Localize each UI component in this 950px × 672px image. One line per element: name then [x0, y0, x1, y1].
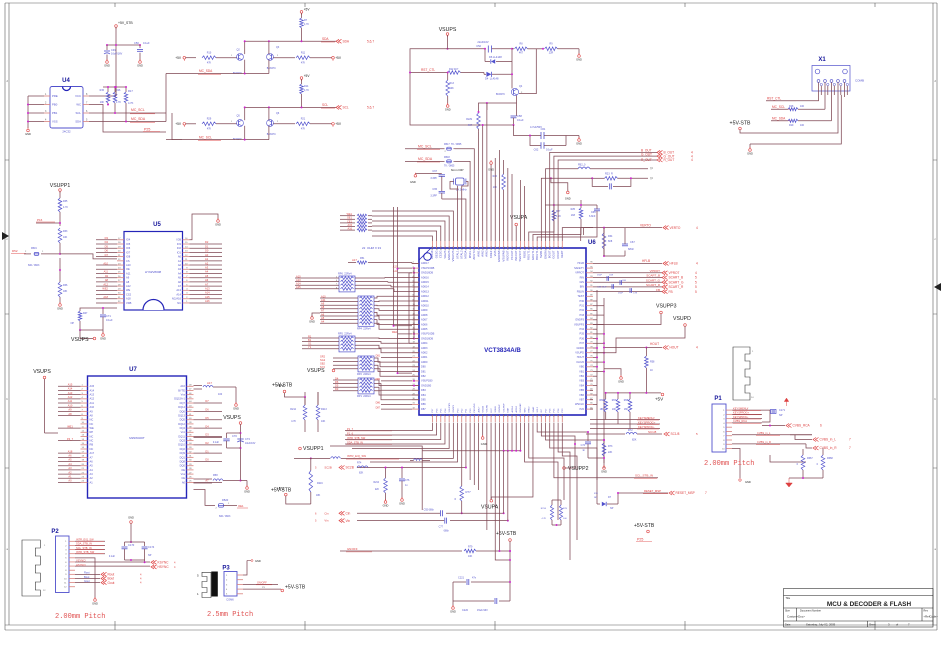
pin U7-34 — [187, 444, 194, 446]
svg-text:GND: GND — [92, 602, 98, 606]
svg-text:D3: D3 — [105, 236, 109, 240]
svg-text:15nF: 15nF — [618, 293, 624, 295]
svg-text:AD610: AD610 — [421, 304, 429, 308]
resistor R17 4.7K — [125, 87, 127, 92]
svg-text:R29: R29 — [207, 118, 212, 121]
svg-text:GND: GND — [128, 516, 134, 520]
svg-text:AD66: AD66 — [421, 322, 428, 326]
svg-text:A3: A3 — [90, 472, 94, 476]
svg-text:AD615: AD615 — [421, 280, 429, 284]
capacitor C62 0.1uF — [530, 136, 541, 146]
svg-text:D87: D87 — [421, 407, 426, 411]
svg-text:SDA: SDA — [75, 120, 81, 124]
wire collectors to row — [244, 107, 246, 120]
svg-text:SDA: SDA — [343, 40, 350, 44]
svg-text:D80: D80 — [421, 365, 426, 369]
wire vsupa column — [515, 226, 517, 241]
svg-text:D84: D84 — [421, 393, 426, 397]
svg-text:IO2: IO2 — [177, 246, 182, 250]
net WE1 wire — [58, 427, 81, 429]
svg-text:A17: A17 — [207, 381, 212, 385]
svg-text:A4: A4 — [321, 320, 325, 324]
svg-text:10uF/16V: 10uF/16V — [245, 442, 256, 445]
svg-text:4: 4 — [696, 226, 698, 230]
svg-text:GND: GND — [410, 180, 416, 184]
svg-text:DQ5: DQ5 — [180, 418, 186, 422]
svg-text:A2: A2 — [68, 470, 72, 474]
pin U7-48 — [187, 385, 194, 387]
pin P2-8 — [69, 569, 75, 571]
pin U7-19 — [81, 461, 88, 463]
svg-text:R12 4K7: R12 4K7 — [449, 68, 459, 71]
svg-text:R74: R74 — [357, 462, 362, 465]
inductor FB2_0 row — [578, 167, 590, 169]
border arrow marker — [2, 232, 9, 240]
svg-text:GND: GND — [576, 142, 582, 146]
svg-text:AD67: AD67 — [421, 318, 428, 322]
svg-text:C170: C170 — [128, 543, 135, 547]
svg-text:GIN: GIN — [579, 280, 584, 284]
wire right bus verticals — [603, 228, 605, 256]
svg-text:FB18: FB18 — [444, 156, 450, 159]
svg-text:C52: C52 — [476, 44, 481, 48]
capacitor C76 — [401, 468, 403, 479]
off-page connector SDA — [336, 39, 342, 43]
svg-text:A8: A8 — [321, 305, 325, 309]
wire — [115, 27, 117, 45]
pin P1-10 — [726, 448, 732, 450]
pin P1-6 — [726, 430, 732, 432]
net A12 wire — [58, 398, 81, 400]
svg-text:16uF/16V: 16uF/16V — [111, 52, 123, 56]
svg-text:GND16DB: GND16DB — [421, 271, 433, 275]
svg-text:+5V-STB: +5V-STB — [272, 383, 293, 389]
net Rout — [75, 573, 100, 575]
svg-text:NP: NP — [148, 554, 152, 557]
ferrite bead FB21 100 — [203, 385, 213, 387]
svg-text:MC_SDA: MC_SDA — [199, 69, 213, 73]
svg-text:GND: GND — [747, 152, 753, 156]
svg-text:R68: R68 — [624, 400, 629, 402]
svg-text:R34: R34 — [608, 235, 613, 238]
resistor R215 4.7K hang — [551, 500, 553, 505]
svg-text:COMB: COMB — [855, 79, 864, 83]
wire mscl column — [455, 149, 475, 241]
capacitor C52 22uF/16V — [448, 48, 486, 50]
svg-text:DQ2: DQ2 — [180, 447, 186, 451]
wire mc_scl riser — [172, 113, 182, 140]
wire pin — [44, 121, 50, 123]
wire rp4 row — [320, 297, 358, 299]
capacitor C74 1n mid — [587, 437, 589, 441]
net A15 resistor wire — [340, 226, 355, 228]
off-page connector CVBS_RCA — [786, 424, 792, 428]
power +5V_STB — [115, 25, 118, 28]
net A5 wire — [58, 461, 81, 463]
wire — [96, 294, 117, 296]
svg-text:WE: WE — [90, 426, 94, 430]
resistor R25 1K8 — [580, 200, 582, 208]
svg-text:P4GVNG: P4GVNG — [474, 403, 476, 412]
svg-text:VPROT: VPROT — [669, 271, 680, 275]
wire scl stb column — [554, 423, 586, 478]
svg-text:P2: P2 — [51, 529, 59, 535]
svg-text:HFLB: HFLB — [670, 262, 678, 266]
wire crystal leads — [450, 182, 458, 190]
ground r73 — [603, 467, 606, 470]
svg-text:AD62: AD62 — [421, 351, 428, 355]
svg-text:0.1uF: 0.1uF — [546, 148, 553, 152]
svg-text:P20: P20 — [579, 407, 584, 411]
net VERTO row — [584, 227, 663, 229]
net D1 wire — [194, 452, 223, 454]
wire stub columns 2 — [507, 168, 509, 241]
wire r27 column — [529, 221, 554, 241]
net SCL_STB_IN — [586, 477, 658, 479]
svg-text:A1: A1 — [178, 259, 182, 263]
wire caps bottom — [125, 559, 145, 561]
svg-text:AD64: AD64 — [421, 341, 428, 345]
svg-text:C66: C66 — [591, 211, 596, 214]
svg-text:VERT: VERT — [560, 250, 564, 258]
svg-text:U4: U4 — [62, 78, 70, 84]
pin U5-21 — [117, 256, 124, 258]
wire bout column — [550, 152, 657, 241]
wire rp2 row — [333, 364, 358, 366]
net SDA_STB_IN — [75, 544, 105, 546]
net A1 wire — [58, 477, 81, 479]
resistor pack RP6 22Rx4 — [339, 276, 355, 292]
svg-text:SCART_R: SCART_R — [669, 285, 685, 289]
svg-text:AD68: AD68 — [421, 313, 428, 317]
off-page connector HSYNC — [151, 565, 157, 569]
ground — [246, 487, 249, 490]
wire — [96, 243, 117, 245]
svg-text:WE2: WE2 — [102, 287, 108, 291]
U6 bottom pins — [432, 402, 564, 422]
pin P1-3 — [726, 418, 732, 420]
svg-text:VSUP16DB: VSUP16DB — [421, 266, 435, 270]
wire — [96, 272, 117, 274]
connector profile P3 — [202, 572, 211, 597]
svg-text:A6: A6 — [68, 454, 72, 458]
net MC_SCL — [89, 112, 166, 114]
ground c220 — [452, 607, 455, 610]
svg-text:A15: A15 — [90, 384, 95, 388]
wire rp4 row — [320, 301, 358, 303]
svg-text:IO4: IO4 — [126, 238, 131, 242]
svg-text:NP: NP — [71, 322, 75, 325]
svg-text:RP: RP — [90, 430, 94, 434]
wire bottom col 30-31 — [558, 423, 570, 560]
svg-text:A14: A14 — [205, 291, 210, 295]
svg-text:GND: GND — [576, 58, 582, 62]
svg-text:RP6 22Rx4: RP6 22Rx4 — [338, 273, 352, 276]
svg-text:GND: GND — [137, 64, 143, 68]
svg-text:GND: GND — [233, 407, 239, 411]
ground arrow — [247, 560, 251, 562]
pin P1-4 — [726, 422, 732, 424]
pin U5-32 — [117, 302, 124, 304]
wire — [96, 264, 117, 266]
pin U5-25 — [117, 272, 124, 274]
svg-text:VDB: VDB — [126, 301, 132, 305]
off-page connector KSYNC — [151, 560, 157, 564]
svg-text:R58: R58 — [650, 361, 655, 364]
svg-text:CS: CS — [126, 259, 130, 263]
pin X1-3 — [830, 80, 833, 83]
wire — [96, 247, 117, 249]
svg-text:D5: D5 — [105, 244, 109, 248]
net SCART_R — [593, 286, 662, 288]
svg-text:CVBS_in_R: CVBS_in_R — [757, 440, 771, 444]
pin U7-22 — [81, 473, 88, 475]
ground — [94, 599, 97, 602]
svg-text:A8: A8 — [126, 280, 130, 284]
svg-text:WR2: WR2 — [524, 407, 526, 413]
svg-text:R229: R229 — [466, 118, 472, 121]
svg-text:CVBS_in_R: CVBS_in_R — [820, 446, 838, 450]
svg-text:R67: R67 — [612, 400, 617, 402]
svg-text:A10: A10 — [321, 294, 326, 298]
wire node to caps — [479, 124, 514, 126]
svg-text:RST: RST — [491, 407, 493, 412]
power VSUPP1 wire right — [330, 446, 422, 451]
off-page connector R_OUT — [657, 158, 663, 162]
svg-text:X1: X1 — [818, 57, 826, 63]
svg-text:C49: C49 — [111, 48, 116, 52]
pin U5-16 — [183, 239, 190, 241]
pin U7-16 — [81, 448, 88, 450]
svg-text:VSUPD: VSUPD — [575, 351, 584, 355]
svg-text:P3: P3 — [222, 566, 230, 572]
pin P3-2 — [237, 579, 243, 581]
svg-text:D5: D5 — [335, 384, 339, 388]
svg-text:A2: A2 — [90, 476, 94, 480]
resistor R23 R row — [605, 177, 618, 181]
svg-text:D2: D2 — [205, 441, 209, 445]
pin U5-30 — [117, 294, 124, 296]
ground X1 — [750, 95, 841, 144]
svg-text:GND: GND — [215, 223, 221, 227]
wire stub columns 3 — [519, 180, 521, 241]
transistor Q2 BC847C — [237, 54, 244, 61]
svg-text:AD63: AD63 — [421, 346, 428, 350]
capacitor C67b 68nF — [604, 255, 625, 257]
svg-text:A5: A5 — [321, 316, 325, 320]
pin U5-6 — [183, 281, 190, 283]
net CVBS_in_L — [732, 434, 812, 436]
wire down gnd — [240, 455, 242, 481]
svg-text:GND: GND — [488, 168, 494, 172]
net OE1 resistor wire — [340, 218, 355, 220]
wire rp2 row — [333, 357, 358, 359]
svg-text:CE1: CE1 — [347, 220, 352, 223]
svg-text:Bout: Bout — [84, 575, 90, 579]
inductor L5 on row — [331, 457, 341, 459]
wire rp6 out elbows — [385, 277, 419, 280]
svg-text:C65: C65 — [432, 188, 437, 191]
svg-text:Gout: Gout — [84, 579, 90, 583]
svg-text:0.1uF: 0.1uF — [109, 555, 116, 558]
net HFLB row — [593, 262, 662, 264]
svg-text:A8: A8 — [68, 412, 72, 416]
ground xtal — [414, 175, 417, 178]
svg-text:D2: D2 — [205, 240, 209, 244]
pin U5-2 — [183, 298, 190, 300]
svg-text:WE1: WE1 — [67, 424, 73, 428]
svg-text:R216: R216 — [317, 482, 323, 485]
svg-text:VB7: VB7 — [579, 398, 584, 402]
pin U7-32 — [187, 452, 194, 454]
wire rp5 row — [302, 341, 339, 343]
svg-text:AD613: AD613 — [421, 289, 429, 293]
wire VSYNC HSYNC rows — [75, 561, 150, 563]
svg-text:C71: C71 — [106, 314, 111, 318]
svg-text:OE: OE — [126, 267, 130, 271]
svg-text:4.7K: 4.7K — [542, 518, 547, 520]
svg-text:A14: A14 — [176, 292, 181, 296]
pin U7-1 — [81, 385, 88, 387]
wire — [190, 281, 223, 283]
wire — [190, 264, 223, 266]
svg-text:GND: GND — [383, 504, 389, 508]
off-page connector RESET_MSP — [669, 491, 675, 495]
svg-text:600 / 0603: 600 / 0603 — [28, 264, 40, 267]
svg-text:A18: A18 — [68, 449, 73, 453]
svg-text:BC847C: BC847C — [267, 67, 276, 70]
svg-text:A9: A9 — [90, 409, 94, 413]
svg-text:A12: A12 — [90, 397, 95, 401]
svg-text:24C32: 24C32 — [62, 130, 71, 134]
svg-text:4.7uF/50V: 4.7uF/50V — [530, 125, 542, 129]
svg-text:NP: NP — [779, 414, 783, 417]
wire cvbs L elbow — [790, 434, 812, 436]
net A4 wire — [58, 465, 81, 467]
svg-text:IO3: IO3 — [177, 242, 182, 246]
svg-text:R73: R73 — [608, 445, 613, 448]
pin U5-9 — [183, 268, 190, 270]
net P16 — [36, 221, 55, 223]
svg-text:IO5: IO5 — [126, 242, 131, 246]
svg-text:VSUPS: VSUPS — [223, 415, 241, 421]
svg-text:BIN: BIN — [580, 285, 584, 289]
capacitor C60 — [619, 280, 621, 285]
svg-text:A3: A3 — [178, 267, 182, 271]
svg-text:U6: U6 — [588, 240, 596, 246]
svg-text:R11: R11 — [301, 51, 306, 54]
resistor R79 10K — [455, 550, 462, 552]
net SC1/8 row — [586, 433, 625, 435]
capacitor C61 4.7uF/50V — [514, 125, 531, 136]
svg-text:A8: A8 — [90, 413, 94, 417]
wire rp4 row — [320, 311, 358, 313]
svg-text:U7: U7 — [129, 367, 137, 373]
wire — [96, 239, 117, 241]
svg-text:C67: C67 — [630, 240, 635, 244]
svg-text:2.00mm Pitch: 2.00mm Pitch — [55, 613, 105, 621]
svg-text:R27: R27 — [556, 210, 561, 213]
net A11 wire — [58, 402, 81, 404]
net CVBS_in_R — [732, 443, 806, 445]
off-page connector CVBS_in_L — [813, 438, 819, 442]
resistor R12 4K7 — [448, 71, 461, 75]
svg-text:RESET_MSP: RESET_MSP — [676, 491, 695, 495]
ground — [217, 220, 220, 223]
wire pin — [44, 104, 50, 106]
svg-text:VB1: VB1 — [579, 369, 584, 373]
svg-text:0.1uF: 0.1uF — [106, 318, 113, 322]
svg-text:R_OUT: R_OUT — [664, 158, 675, 162]
svg-text:CVBS_RCA: CVBS_RCA — [793, 424, 811, 428]
resistor pack RP4 22Rx4 double — [358, 296, 374, 326]
wire r215 r75 join — [551, 520, 553, 525]
svg-text:RST_CTL: RST_CTL — [767, 97, 781, 101]
transistor Q5 BC847C — [237, 120, 244, 127]
pin P1-8 — [726, 439, 732, 441]
svg-text:DQ4: DQ4 — [180, 426, 186, 430]
wire — [190, 289, 223, 291]
pin U7-14 — [81, 440, 88, 442]
svg-text:VSUPS: VSUPS — [33, 369, 51, 375]
pin U5-10 — [183, 264, 190, 266]
svg-text:A12: A12 — [103, 282, 108, 286]
svg-text:+5V: +5V — [304, 74, 311, 78]
svg-text:R10: R10 — [207, 51, 212, 54]
wire — [190, 256, 223, 258]
resistor R667 0 — [801, 455, 805, 470]
svg-text:R19: R19 — [789, 124, 794, 127]
power VSUPS — [446, 33, 449, 36]
resistor R16 4.7K — [114, 87, 116, 92]
pin U7-39 — [187, 423, 194, 425]
wire to U5 CS — [60, 254, 117, 259]
net Vin wire to column — [450, 520, 508, 522]
pin U7-12 — [81, 431, 88, 433]
svg-text:C62: C62 — [534, 148, 539, 152]
svg-text:10K: 10K — [468, 555, 473, 558]
pin U5-4 — [183, 289, 190, 291]
resistor R18 100 — [788, 108, 798, 111]
svg-text:NC: NC — [90, 439, 94, 443]
svg-text:SDA: SDA — [322, 37, 329, 41]
wire rp5 row — [302, 344, 339, 346]
wire bottom col 14-17 — [490, 423, 492, 500]
svg-text:A14: A14 — [296, 282, 301, 286]
svg-text:Vcc: Vcc — [181, 430, 186, 434]
svg-text:A5: A5 — [90, 464, 94, 468]
svg-text:VCC: VCC — [75, 94, 81, 98]
capacitor C171 NP — [771, 410, 777, 414]
svg-text:GND: GND — [399, 502, 405, 506]
svg-text:4: 4 — [696, 262, 698, 266]
svg-text:KEYSPROG-: KEYSPROG- — [638, 425, 655, 429]
svg-text:VERTO: VERTO — [640, 223, 651, 227]
wire rp4 row — [320, 315, 358, 317]
wire left long verticals — [394, 207, 399, 326]
svg-text:+5V-STB: +5V-STB — [285, 585, 306, 591]
svg-text:D4: D4 — [105, 240, 109, 244]
wire bottom col 22-24 — [525, 423, 558, 520]
svg-text:DQ8: DQ8 — [180, 459, 186, 463]
pin U7-17 — [81, 452, 88, 454]
svg-text:U5: U5 — [153, 222, 161, 228]
svg-text:RST_CTL: RST_CTL — [421, 68, 435, 72]
wire left bus to ground — [28, 95, 44, 97]
wire collectors to row — [244, 41, 246, 54]
svg-text:82K: 82K — [359, 472, 364, 475]
pin U7-8 — [81, 415, 88, 417]
